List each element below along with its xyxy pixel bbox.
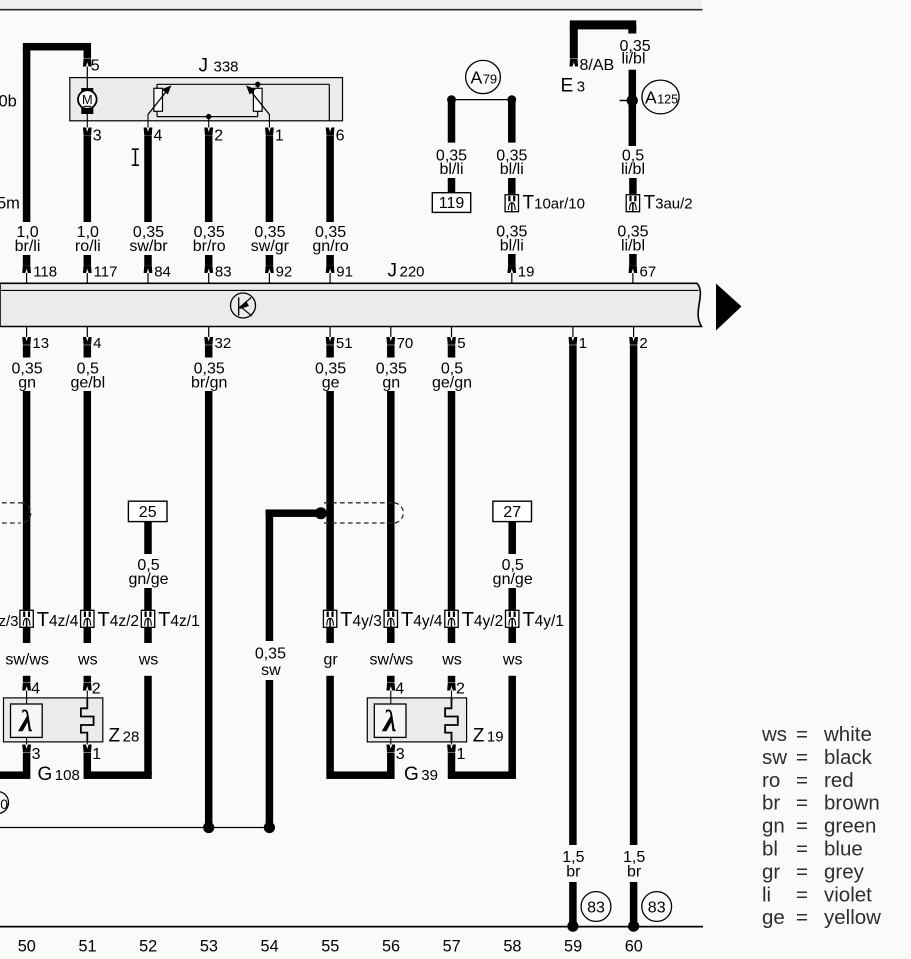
svg-text:br/li: br/li [15, 238, 41, 255]
pin 3 [26, 737, 28, 744]
svg-text:ws: ws [138, 652, 159, 669]
svg-text:gn/ge: gn/ge [493, 571, 533, 588]
svg-text:grey: grey [824, 860, 865, 883]
svg-text:92: 92 [276, 264, 293, 281]
svg-text:3: 3 [32, 746, 41, 763]
svg-text:li: li [762, 883, 771, 906]
svg-text:3: 3 [396, 746, 405, 763]
svg-text:green: green [824, 815, 876, 838]
svg-text:2: 2 [214, 128, 223, 145]
svg-text:53: 53 [200, 938, 218, 956]
throttle valve control unit J338 box [70, 78, 343, 121]
wire 0,35 gn [387, 345, 395, 357]
wire 1,0 br/li corner feed [23, 43, 91, 51]
wire to terminal 91 [326, 255, 334, 265]
junction wire to ground [0, 827, 270, 829]
wire 0,35 gn [23, 345, 31, 357]
svg-text:83: 83 [215, 264, 232, 281]
svg-text:4: 4 [154, 128, 163, 145]
svg-text:=: = [796, 723, 808, 746]
svg-text:li/bl: li/bl [621, 161, 645, 178]
wire ws to T4z/2 [84, 391, 92, 643]
connector T4y/2 [445, 610, 458, 627]
wire 0,35 gn/ro [326, 136, 334, 223]
svg-text:91: 91 [336, 264, 353, 281]
lambda sensor cell [11, 704, 43, 737]
svg-text:27: 27 [503, 504, 521, 521]
terminal K symbol in J220 [231, 293, 256, 318]
svg-text:117: 117 [94, 264, 118, 281]
svg-text:70: 70 [397, 335, 414, 352]
wire pin1 to ws wire [448, 753, 456, 772]
variant marker (dashed, left) [0, 503, 31, 523]
lambda probe heater Z28 box [4, 698, 103, 742]
wire pin2 into box [84, 676, 92, 683]
connector T4z/2 [81, 610, 94, 627]
svg-text:gn/ro: gn/ro [312, 238, 349, 255]
wire 0,35 bl/li (right) [508, 100, 516, 143]
connector T4y/3 [323, 610, 336, 627]
pin 4 [22, 683, 31, 691]
wire 0,35 br/gn down [205, 391, 213, 828]
J338 internal top rail [157, 83, 329, 85]
pin 2 of J338 [204, 128, 213, 136]
svg-text:0b: 0b [0, 93, 17, 111]
node junction sw [264, 822, 275, 833]
wire 1,5 br col 60 [630, 345, 638, 845]
svg-text:51: 51 [78, 938, 96, 956]
pin 4 of J338 [144, 128, 153, 136]
svg-text:54: 54 [261, 938, 279, 956]
svg-text:ws: ws [441, 652, 462, 669]
wire 0,35 br/gn [205, 345, 213, 357]
svg-text:4: 4 [31, 680, 40, 697]
svg-text:black: black [824, 746, 873, 769]
svg-text:br/gn: br/gn [191, 375, 227, 392]
wire to terminal 67 [629, 254, 637, 265]
terminal 83 circle [642, 892, 672, 922]
svg-text:T4z/1: T4z/1 [158, 609, 200, 631]
motor M in J338 [86, 67, 88, 90]
svg-text:58: 58 [503, 938, 521, 956]
pin 3 [390, 737, 392, 744]
bottom grid line [0, 926, 703, 928]
wire 0,35 bl/li (left) [448, 100, 456, 143]
wire pin1 to ws wire [84, 753, 92, 772]
wire ge down col55 [326, 391, 334, 643]
ground reference circle 10 [0, 792, 9, 814]
terminal 5 of J220 (bottom) [451, 327, 453, 338]
svg-text:J338: J338 [199, 56, 239, 77]
svg-text:G39: G39 [404, 764, 438, 785]
svg-text:ws: ws [77, 652, 98, 669]
lambda sensor cell [374, 704, 406, 737]
svg-text:83: 83 [648, 899, 666, 916]
pin 6 of J338 [326, 128, 335, 136]
svg-text:5: 5 [457, 335, 465, 352]
wire pin4 into box [387, 676, 395, 683]
svg-text:=: = [796, 906, 808, 929]
wire ws join from T4z/1 [144, 676, 152, 775]
potentiometer wiper 1 [148, 89, 168, 115]
wire to terminal 19 [508, 254, 516, 265]
node junction wire A79 [452, 99, 512, 101]
svg-text:br: br [627, 864, 642, 881]
potentiometer wiper 2 [249, 89, 269, 115]
J338 internal bottom rail [157, 116, 258, 118]
pin 1 of J338 [265, 128, 274, 136]
pin 2 [447, 683, 456, 691]
variant marker (dashed, right) [324, 503, 403, 523]
wire to terminal 83 [205, 255, 213, 265]
pin 5 [83, 59, 92, 67]
svg-text:λ: λ [17, 703, 33, 738]
svg-text:2: 2 [639, 335, 647, 352]
svg-text:E3: E3 [561, 76, 586, 97]
svg-text:=: = [796, 883, 808, 906]
svg-text:25: 25 [139, 504, 157, 521]
terminal 51 of J220 (bottom) [329, 327, 331, 338]
lambda probe heater Z19 box [367, 698, 466, 742]
connector T4z/4 [20, 610, 33, 627]
wire 0,35 br/ro [205, 136, 213, 223]
wire 0,5 gn/ge (right) [508, 522, 516, 554]
svg-text:1: 1 [92, 746, 101, 763]
wire to terminal 118 [23, 255, 31, 265]
wire 0,5 gn/ge (left) [144, 522, 152, 554]
wire 1,5 br col 59 [569, 345, 577, 845]
svg-text:59: 59 [564, 938, 582, 956]
svg-text:br: br [762, 792, 780, 815]
svg-text:0,35: 0,35 [255, 646, 286, 663]
svg-text:Z19: Z19 [473, 726, 504, 747]
wire pin4 into box [23, 676, 31, 683]
control unit bus J220 [0, 283, 702, 326]
svg-text:ge/gn: ge/gn [432, 375, 472, 392]
wire 0,35 sw/gr [266, 136, 274, 223]
terminal 32 of J220 (bottom) [208, 327, 210, 338]
svg-text:bl/li: bl/li [500, 161, 524, 178]
svg-text:56: 56 [382, 938, 400, 956]
node A125 tap [620, 100, 629, 102]
terminal 70 of J220 (bottom) [390, 327, 392, 338]
svg-text:2: 2 [92, 680, 101, 697]
svg-text:sw/ws: sw/ws [5, 652, 49, 669]
svg-text:ge/bl: ge/bl [70, 375, 105, 392]
pin 1 [451, 742, 453, 745]
node pin2 tap [206, 114, 211, 119]
svg-text:sw: sw [261, 662, 281, 679]
wire 0,5 ge/bl [84, 345, 92, 357]
svg-text:T4y/4: T4y/4 [401, 609, 443, 631]
text cursor artifact [132, 148, 139, 150]
pin 8/AB of E3 [569, 59, 578, 67]
wire gn down col56 [387, 391, 395, 643]
svg-text:=: = [796, 792, 808, 815]
svg-text:=: = [796, 860, 808, 883]
svg-text:ge: ge [322, 375, 340, 392]
svg-text:10: 10 [0, 796, 8, 812]
svg-text:32: 32 [215, 335, 232, 352]
svg-text:51: 51 [336, 335, 353, 352]
wire sw/ws to T4z/4 [23, 391, 31, 643]
wire pin3 to left edge [23, 753, 31, 772]
svg-text:Z28: Z28 [109, 726, 140, 747]
svg-text:1: 1 [457, 746, 466, 763]
svg-text:G108: G108 [38, 764, 80, 785]
top border strip [0, 0, 702, 9]
svg-text:ws: ws [502, 652, 523, 669]
connector T3au/2 [626, 195, 639, 212]
svg-text:sw/ws: sw/ws [370, 652, 414, 669]
heater element [81, 698, 94, 742]
svg-text:bl/li: bl/li [500, 238, 524, 255]
svg-text:67: 67 [640, 264, 657, 281]
bus continuation arrow [716, 284, 742, 331]
svg-text:=: = [796, 746, 808, 769]
svg-text:violet: violet [824, 883, 872, 906]
label A79 [466, 60, 501, 93]
wire E3 hook [570, 20, 636, 29]
wire ge/gn down col57 [448, 391, 456, 643]
svg-text:brown: brown [824, 792, 880, 815]
heater element [445, 698, 458, 742]
connector T4y/4 [384, 610, 397, 627]
svg-text:118: 118 [33, 264, 57, 281]
svg-text:ro: ro [762, 769, 780, 792]
wire to terminal 84 [144, 255, 152, 265]
svg-text:60: 60 [625, 938, 643, 956]
pin 2 [83, 683, 92, 691]
pin 1 [86, 742, 88, 745]
svg-text:4: 4 [93, 335, 101, 352]
svg-text:M: M [82, 92, 93, 107]
svg-text:λ: λ [381, 703, 397, 738]
svg-text:52: 52 [139, 938, 157, 956]
svg-text:6: 6 [336, 128, 345, 145]
svg-text:T4y/1: T4y/1 [522, 609, 564, 631]
connector T4z/1 [141, 610, 154, 627]
colour code legend [761, 723, 881, 929]
svg-text:br/ro: br/ro [193, 238, 226, 255]
svg-text:1: 1 [579, 335, 587, 352]
terminal 1 of J220 (bottom) [572, 327, 574, 338]
wire pin3 G39 stub [387, 753, 395, 779]
svg-text:=: = [796, 769, 808, 792]
svg-text:119: 119 [439, 195, 465, 212]
node pot2 top [255, 82, 260, 87]
svg-text:8/AB: 8/AB [580, 57, 615, 74]
svg-text:gr: gr [323, 652, 338, 669]
node junction on gr wire [315, 507, 327, 519]
svg-text:55: 55 [321, 938, 339, 956]
wire to terminal 117 [84, 255, 92, 265]
svg-text:white: white [823, 723, 872, 746]
svg-text:gn/ge: gn/ge [128, 571, 168, 588]
svg-text:84: 84 [154, 264, 171, 281]
svg-text:=: = [796, 838, 808, 861]
svg-text:57: 57 [443, 938, 461, 956]
svg-text:T3au/2: T3au/2 [644, 193, 693, 214]
svg-text:50: 50 [18, 938, 36, 956]
svg-text:T4z/4: T4z/4 [37, 609, 79, 631]
svg-text:T4z/2: T4z/2 [98, 609, 140, 631]
svg-text:5m: 5m [0, 195, 20, 213]
svg-text:li/bl: li/bl [621, 238, 645, 255]
svg-text:1: 1 [275, 128, 284, 145]
svg-text:19: 19 [518, 264, 535, 281]
svg-text:4: 4 [395, 680, 404, 697]
svg-text:=: = [796, 815, 808, 838]
svg-text:J220: J220 [388, 261, 425, 282]
pin 4 [386, 683, 395, 691]
svg-text:z/3: z/3 [0, 613, 19, 630]
svg-text:gr: gr [762, 860, 780, 883]
terminal 83 circle [581, 892, 611, 922]
wire 0,35 sw elbow [266, 509, 318, 517]
svg-text:13: 13 [32, 335, 49, 352]
node junction br/gn [203, 822, 214, 833]
connector T4y/1 [506, 610, 519, 627]
wire 0,5 ge/gn [448, 345, 456, 357]
wire 0,35 sw/br [144, 136, 152, 223]
svg-text:gn: gn [18, 375, 36, 392]
svg-text:ws: ws [761, 723, 787, 746]
connector T10ar/10 [505, 195, 518, 212]
potentiometer track 1 [154, 88, 163, 111]
svg-text:5: 5 [91, 58, 100, 75]
svg-text:red: red [824, 769, 854, 792]
reference box 119 [432, 193, 470, 213]
svg-text:ro/li: ro/li [75, 238, 101, 255]
svg-text:yellow: yellow [824, 906, 881, 929]
reference box 25 [128, 501, 167, 521]
svg-text:T4y/3: T4y/3 [340, 609, 382, 631]
svg-text:bl: bl [762, 838, 778, 861]
svg-text:sw/br: sw/br [129, 238, 168, 255]
pin 3 of J338 [83, 128, 92, 136]
svg-text:2: 2 [456, 680, 465, 697]
wire gr to pin3 [326, 676, 334, 772]
svg-text:sw/gr: sw/gr [251, 238, 290, 255]
svg-text:83: 83 [587, 899, 605, 916]
svg-text:sw: sw [762, 746, 787, 769]
wire to terminal 92 [266, 255, 274, 265]
wire pin2 into box [448, 676, 456, 683]
wire 0,35 ge [326, 345, 334, 357]
label A125 [642, 80, 679, 114]
reference box 27 [493, 501, 532, 521]
svg-text:bl/li: bl/li [439, 161, 463, 178]
svg-text:T10ar/10: T10ar/10 [523, 193, 585, 214]
svg-text:gn: gn [382, 375, 400, 392]
terminal 4 of J220 (bottom) [86, 327, 88, 338]
potentiometer track 2 [253, 88, 262, 111]
terminal 2 of J220 (bottom) [633, 327, 635, 338]
svg-text:br: br [566, 864, 581, 881]
terminal 13 of J220 (bottom) [26, 327, 28, 338]
svg-text:li/bl: li/bl [622, 50, 646, 67]
wire 0,35 li/bl from E3 [628, 25, 636, 34]
wire to pin 5 of J338 [84, 47, 92, 59]
svg-text:blue: blue [824, 838, 863, 861]
svg-text:3: 3 [93, 128, 102, 145]
svg-text:T4y/2: T4y/2 [462, 609, 504, 631]
wire ws join from T4y/1 [508, 676, 516, 775]
svg-text:ge: ge [762, 906, 785, 929]
wire 1,0 ro/li [84, 136, 92, 223]
svg-text:gn: gn [762, 815, 785, 838]
